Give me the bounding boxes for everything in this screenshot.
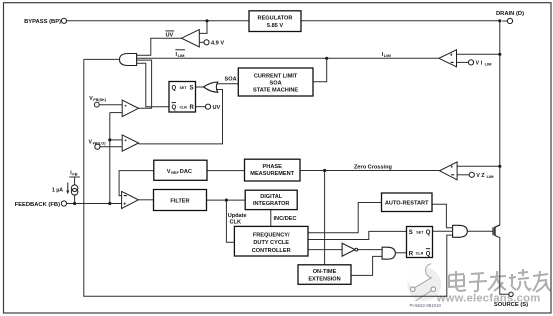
- wire ILIM comparator - to VILIM terminal: [457, 61, 469, 63]
- phase measurement block: [245, 159, 301, 181]
- svg-text:STATE MACHINE: STATE MACHINE: [253, 88, 298, 94]
- wire freq out3 to inverter: [308, 249, 342, 251]
- wire drain vertical: [495, 21, 500, 228]
- op-amp error comparator: [122, 191, 139, 208]
- wire SK comparator output to AND1: [137, 60, 152, 108]
- wire AND1 output to left rail: [84, 58, 120, 60]
- SOURCE (S) pin: [494, 292, 528, 308]
- svg-text:SOA: SOA: [225, 77, 237, 83]
- wire UV comparator output to AND1: [137, 38, 182, 55]
- svg-text:DUTY CYCLE: DUTY CYCLE: [253, 240, 289, 246]
- wire FB riser to SK comparator minus: [110, 112, 122, 114]
- latch U1 (current limit latch): [169, 82, 196, 113]
- svg-text:UV: UV: [166, 33, 174, 39]
- wire ILIM-bar line: [137, 57, 439, 59]
- svg-text:5.85 V: 5.85 V: [267, 23, 283, 29]
- op-amp VFB(SK) comparator: [89, 96, 138, 117]
- wire error comp minus to Vref DAC: [119, 171, 154, 196]
- svg-text:R: R: [190, 105, 195, 111]
- svg-text:+: +: [123, 202, 126, 208]
- 烧: [509, 269, 531, 290]
- AND gate AND3 (gate drive): [453, 225, 468, 237]
- wire freq out1 to auto-restart: [308, 203, 382, 233]
- svg-text:CLR: CLR: [416, 252, 424, 256]
- 发: [488, 271, 506, 291]
- wire LO comparator output to OR1: [139, 90, 223, 144]
- svg-text:DIGITAL: DIGITAL: [260, 194, 283, 200]
- Vref DAC block: [154, 160, 207, 180]
- svg-text:SET: SET: [416, 230, 424, 234]
- wire left rail down and bottom rail to AND3: [84, 59, 453, 296]
- svg-text:LIM: LIM: [178, 53, 186, 58]
- svg-text:LIM: LIM: [384, 53, 392, 58]
- OR gate OR1 (points left): [204, 77, 237, 93]
- svg-text:EXTENSION: EXTENSION: [308, 276, 340, 282]
- svg-text:DRAIN (D): DRAIN (D): [496, 11, 524, 17]
- svg-text:V: V: [167, 169, 171, 175]
- watermark chinese text 电子发烧友: [450, 270, 552, 293]
- svg-text:PHASE: PHASE: [263, 164, 283, 170]
- wire MOSFET source to terminal: [495, 236, 509, 295]
- wire latch2 Q to AND3: [433, 230, 453, 232]
- wire latch1 Qbar to AND1: [137, 63, 169, 106]
- latch U2 (gate drive latch): [407, 227, 433, 258]
- AND gate AND2: [382, 247, 395, 259]
- svg-text:UV: UV: [213, 105, 221, 111]
- svg-text:+: +: [124, 138, 127, 143]
- svg-text:CURRENT LIMIT: CURRENT LIMIT: [254, 74, 298, 80]
- svg-text:Zero Crossing: Zero Crossing: [354, 164, 393, 170]
- svg-text:DAC: DAC: [180, 169, 192, 175]
- svg-text:MEASUREMENT: MEASUREMENT: [250, 171, 294, 177]
- wire Vref DAC to phase measurement: [207, 170, 245, 172]
- svg-text:FREQUENCY/: FREQUENCY/: [253, 233, 290, 239]
- svg-text:FB: FB: [72, 173, 77, 177]
- wire BP branch to UV comparator input: [199, 21, 207, 34]
- wire on-time extension to AND2: [351, 256, 382, 275]
- svg-text:REGULATOR: REGULATOR: [258, 15, 293, 21]
- frequency duty cycle controller block: [234, 226, 308, 256]
- wire latch1 R to UV terminal: [196, 106, 206, 108]
- svg-text:INC/DEC: INC/DEC: [274, 216, 297, 222]
- svg-text:V I: V I: [476, 61, 483, 67]
- svg-text:Q: Q: [172, 105, 177, 111]
- wire FB riser branch to LO comparator plus: [110, 139, 122, 141]
- wire BP line: [67, 20, 250, 22]
- svg-text:+: +: [124, 103, 127, 108]
- wire feedback line: [67, 203, 122, 205]
- op-amp zero crossing comparator: [440, 162, 495, 180]
- wire AND3 output to MOSFET gate: [467, 230, 493, 232]
- AND gate AND1 (4-input, points left): [120, 54, 137, 66]
- svg-text:ON-TIME: ON-TIME: [313, 269, 337, 275]
- BYPASS (BP) pin: [24, 18, 67, 25]
- wire ZC comparator top to drain: [457, 165, 500, 167]
- wire ILIM branch to state machine: [313, 58, 327, 82]
- wire filter to digital integrator: [207, 199, 246, 201]
- op-amp UV comparator: [166, 30, 225, 48]
- inverter gate: [342, 243, 358, 256]
- regulator block: [249, 11, 301, 32]
- wire SOA from state machine to OR1: [217, 83, 238, 85]
- svg-text:SOURCE (S): SOURCE (S): [494, 302, 528, 308]
- wire AND2 output to latch2 R: [395, 252, 406, 254]
- current source IFB: [52, 171, 78, 196]
- filter block: [154, 190, 207, 211]
- svg-text:INTEGRATOR: INTEGRATOR: [253, 201, 289, 207]
- node junction dots: [73, 19, 501, 205]
- wire current source top bar: [69, 177, 80, 185]
- svg-text:+: +: [450, 165, 453, 171]
- svg-text:R: R: [409, 251, 414, 257]
- svg-text:SET: SET: [180, 86, 188, 90]
- wire FB riser: [109, 113, 111, 204]
- svg-text:Q: Q: [426, 251, 431, 257]
- wire auto-restart output to AND3: [432, 204, 453, 227]
- 友: [533, 271, 551, 292]
- wire zero crossing branch to on-time extension: [324, 171, 326, 265]
- svg-text:Update: Update: [228, 213, 247, 219]
- svg-text:1 µA: 1 µA: [52, 187, 63, 193]
- DRAIN (D) pin: [496, 11, 524, 24]
- wire inverter output to AND2: [358, 249, 383, 251]
- svg-text:Q: Q: [172, 86, 177, 92]
- watermark logo: [407, 258, 441, 301]
- svg-text:S: S: [190, 86, 194, 92]
- svg-text:AUTO-RESTART: AUTO-RESTART: [385, 201, 429, 207]
- svg-text:FILTER: FILTER: [170, 198, 189, 204]
- svg-text:PI-5822-081010: PI-5822-081010: [410, 303, 442, 308]
- digital integrator block: [245, 190, 297, 209]
- svg-text:V Z: V Z: [476, 173, 485, 179]
- UV terminal at latch1 R: [205, 104, 220, 111]
- FEEDBACK (FB) pin: [15, 201, 67, 208]
- wire error comp output to filter: [138, 199, 153, 201]
- wire VFB(LO) terminal to comparator: [100, 146, 122, 148]
- svg-text:FEEDBACK (FB): FEEDBACK (FB): [15, 202, 60, 208]
- svg-text:CLR: CLR: [180, 106, 188, 110]
- on-time extension block: [298, 265, 351, 285]
- 电: [449, 271, 466, 291]
- 子: [469, 273, 487, 291]
- svg-text:CLK: CLK: [230, 219, 242, 225]
- label ILIM-bar: [175, 50, 185, 58]
- wire ILIM comparator + to drain: [457, 53, 500, 55]
- wire regulator to drain: [301, 20, 507, 22]
- auto-restart block: [382, 193, 433, 212]
- wire current source to FB line: [74, 195, 76, 203]
- label update clk: [228, 213, 247, 226]
- wire freq out2 to latch2 S: [308, 231, 407, 239]
- wire VFB(SK) terminal to comparator: [99, 104, 122, 106]
- wire zero crossing line: [300, 170, 440, 172]
- transistor Q1 (power MOSFET): [493, 225, 500, 236]
- op-amp VFB(LO) comparator: [89, 135, 139, 151]
- svg-text:REF: REF: [171, 171, 179, 175]
- current limit SOA state machine block: [238, 68, 313, 96]
- wire update clk branch: [226, 200, 234, 242]
- wire digital integrator to freq controller: [270, 210, 272, 227]
- svg-text:+: +: [450, 53, 453, 59]
- svg-text:BYPASS (BP): BYPASS (BP): [24, 19, 61, 25]
- svg-text:S: S: [409, 230, 413, 236]
- op-amp ILIM comparator: [439, 50, 492, 67]
- wire OR1 output to latch1 S: [196, 86, 204, 88]
- svg-text:LIM: LIM: [487, 174, 495, 179]
- svg-text:LIM: LIM: [485, 62, 493, 67]
- svg-text:SOA: SOA: [270, 81, 282, 87]
- wire 4.9V to UV comparator: [199, 41, 204, 43]
- svg-text:4.9 V: 4.9 V: [211, 41, 224, 47]
- label ILIM near comparator: [382, 52, 392, 58]
- svg-text:CONTROLLER: CONTROLLER: [252, 248, 291, 254]
- wire ZC comparator bottom to VZLIM terminal: [457, 174, 469, 176]
- svg-text:Q: Q: [426, 230, 431, 236]
- svg-text:FB(SK): FB(SK): [93, 98, 107, 102]
